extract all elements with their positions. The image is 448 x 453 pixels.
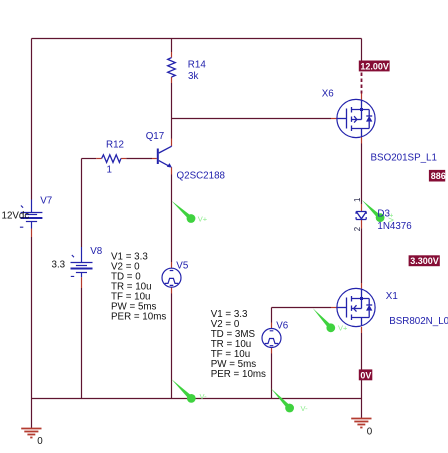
wire D3 cathode to X1 drain: [361, 220, 363, 229]
svg-text:Q2SC2188: Q2SC2188: [177, 170, 226, 181]
svg-text:V-: V-: [301, 404, 309, 413]
pulse source V5: [162, 268, 181, 287]
mosfet X6 (p-ch, BSO201SP): [337, 99, 375, 137]
probe needle V+ at X1 gate: [313, 308, 335, 332]
mosfet X1 (n-ch, BSR802N): [337, 288, 375, 326]
wire X6 gate (node to X6): [172, 118, 332, 120]
svg-text:BSO201SP_L1: BSO201SP_L1: [371, 152, 437, 163]
wire left vertical (V7 branch): [31, 39, 33, 429]
svg-text:X6: X6: [322, 89, 335, 100]
wire X6 drain from top rail: [361, 39, 363, 61]
wire ground bus: [32, 398, 362, 400]
svg-text:1: 1: [107, 164, 112, 175]
svg-text:V+: V+: [387, 212, 396, 222]
battery V8: [71, 247, 93, 277]
resistor R14: [168, 58, 176, 77]
probe needle V+ at X6 source/D3: [362, 200, 385, 222]
svg-text:V+: V+: [198, 214, 208, 223]
svg-text:3k: 3k: [188, 71, 198, 82]
wire V6 top riser: [271, 308, 273, 323]
svg-text:V7: V7: [40, 196, 52, 207]
probe needle V+ at Q17 emitter: [171, 201, 195, 223]
svg-text:PER = 10ms: PER = 10ms: [211, 369, 266, 380]
wire top rail: [32, 38, 362, 40]
svg-text:0V: 0V: [360, 370, 371, 380]
svg-text:2: 2: [353, 227, 362, 231]
probe needle V- at V5 branch: [171, 379, 195, 403]
svg-text:V5: V5: [176, 261, 189, 272]
wire Q17 emitter to V5: [171, 167, 173, 174]
wire R12 left lead: [82, 158, 97, 160]
svg-text:1: 1: [353, 198, 362, 202]
ground right (0): [351, 419, 371, 428]
wire R14 top lead: [171, 39, 173, 53]
svg-text:X1: X1: [386, 291, 398, 302]
battery V7: [21, 200, 43, 229]
svg-text:3.3: 3.3: [52, 260, 66, 271]
svg-text:V6: V6: [276, 320, 289, 331]
pulse source V6: [262, 329, 281, 348]
svg-text:PER = 10ms: PER = 10ms: [111, 312, 166, 323]
resistor R12: [102, 155, 121, 163]
svg-text:V8: V8: [90, 246, 103, 257]
svg-text:0: 0: [367, 427, 373, 438]
svg-text:12.00V: 12.00V: [360, 61, 389, 71]
svg-text:V+: V+: [338, 324, 348, 333]
wire R14 bottom lead / collector node: [171, 77, 173, 83]
svg-text:3.300V: 3.300V: [410, 256, 439, 266]
probe needle V- at V6 bottom: [271, 388, 294, 412]
svg-text:BSR802N_L0: BSR802N_L0: [389, 316, 448, 327]
wire V6 bottom to bus: [271, 347, 273, 353]
wire X6 source to D3: [361, 137, 363, 144]
svg-text:886: 886: [431, 171, 446, 181]
svg-text:Q17: Q17: [146, 131, 165, 142]
diode D3: [356, 212, 366, 220]
wire V8/R12 branch: [81, 159, 83, 399]
wire R12 right lead to Q17 base: [121, 158, 126, 160]
svg-text:V-: V-: [200, 392, 208, 401]
wire X1 source to ground: [361, 327, 363, 333]
bias label 886: [429, 170, 446, 182]
bias label 12.00V: [359, 61, 390, 72]
bias label 0V: [359, 369, 373, 380]
ground left (0): [21, 429, 41, 438]
svg-text:R14: R14: [188, 60, 207, 71]
bias label 3.300V: [409, 255, 440, 266]
svg-text:0: 0: [37, 436, 43, 447]
wire V5 bottom to bus: [171, 287, 173, 293]
transistor Q17: [158, 146, 172, 167]
wire X1 gate from V6: [272, 307, 332, 309]
svg-text:R12: R12: [106, 139, 124, 150]
svg-text:12Vdc: 12Vdc: [2, 211, 30, 222]
